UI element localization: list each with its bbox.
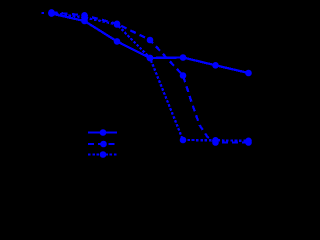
legend dashed line sample bbox=[88, 143, 117, 145]
legend dotted marker bbox=[100, 151, 107, 158]
dashed curve markers bbox=[48, 9, 55, 16]
dotted curve line bbox=[52, 13, 249, 141]
chart figure: three blue curves on black background bbox=[0, 0, 273, 205]
dashed curve line bbox=[52, 12, 249, 142]
legend dotted line sample bbox=[88, 153, 117, 155]
legend solid line sample bbox=[88, 131, 117, 133]
solid curve line bbox=[52, 14, 249, 73]
dotted curve markers bbox=[48, 10, 55, 17]
stray dash left of first marker bbox=[42, 12, 45, 14]
legend bbox=[88, 133, 117, 155]
legend solid marker bbox=[100, 129, 107, 136]
solid curve markers bbox=[48, 10, 55, 17]
legend dashed marker bbox=[100, 141, 107, 148]
